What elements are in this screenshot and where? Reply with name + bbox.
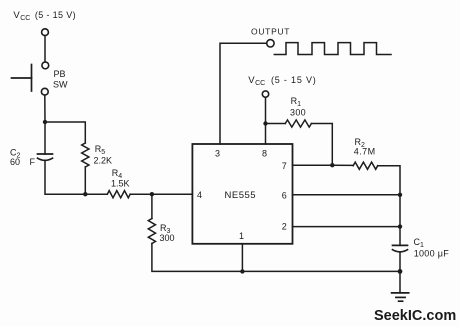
wire pin 7 of U1 to node E (293, 164, 333, 166)
svg-text:7: 7 (282, 161, 287, 171)
svg-text:1.5K: 1.5K (111, 178, 130, 188)
resistor R1 (285, 120, 311, 127)
svg-text:300: 300 (160, 233, 175, 243)
wire pin 2 of U1 to node G (293, 226, 401, 228)
wire node E to R2 (332, 164, 353, 166)
capacitor C1 (393, 244, 408, 246)
wire pin 1 of U1 down to ground rail (241, 244, 243, 272)
svg-text:3: 3 (215, 149, 220, 159)
node C junction dot (150, 192, 154, 196)
wire node G down to C1 (399, 227, 401, 246)
svg-text:8: 8 (262, 149, 267, 159)
wire R2 right end down to node F (378, 166, 400, 195)
wire node F down to node G (399, 195, 401, 227)
svg-text:1: 1 (239, 231, 244, 241)
svg-text:6: 6 (282, 190, 287, 200)
power terminal VCC1 (top left) (42, 29, 49, 36)
wire node C to pin 4 of U1 (152, 193, 193, 195)
svg-text:4: 4 (197, 190, 202, 200)
wire R1 right end down to node E (311, 124, 332, 166)
wire R5 bottom to node B (84, 167, 86, 194)
node G junction dot (398, 224, 402, 228)
wire node A to R5 top (45, 122, 85, 143)
resistor R4 (107, 191, 130, 198)
wire node C to R3 top (151, 194, 153, 218)
wire node D to pin 8 of U1 (265, 124, 267, 145)
svg-text:(5 - 15 V): (5 - 15 V) (35, 10, 76, 20)
wire node A to C2 top (44, 122, 46, 154)
svg-text:NE555: NE555 (225, 190, 257, 201)
wire node B to R4 (85, 193, 107, 195)
node E junction dot (330, 163, 334, 167)
svg-text:2.2K: 2.2K (94, 156, 113, 166)
svg-text:R1: R1 (291, 96, 302, 108)
svg-text:CC: CC (20, 15, 30, 22)
wire node D to R1 (266, 123, 286, 125)
power terminal VCC2 (262, 91, 268, 97)
svg-text:2: 2 (282, 222, 287, 232)
output terminal circle (267, 40, 274, 47)
svg-text:300: 300 (290, 107, 306, 117)
wire pin 3 up to output (220, 43, 267, 144)
svg-text:(5 - 15 V): (5 - 15 V) (271, 75, 316, 85)
node pin1 junction dot (240, 269, 244, 273)
node F junction dot (398, 193, 402, 197)
svg-text:SeekIC.com: SeekIC.com (374, 308, 456, 324)
svg-text:CC: CC (255, 80, 265, 87)
wire pin 6 of U1 to node F (293, 194, 401, 196)
svg-text:R5: R5 (95, 144, 106, 156)
capacitor C2 (38, 153, 53, 155)
node B junction dot (83, 192, 87, 196)
svg-text:SW: SW (53, 80, 68, 90)
node D junction dot (263, 121, 267, 125)
svg-text:60: 60 (10, 157, 20, 167)
IC U1 NE555 body (192, 144, 292, 244)
wire VCC2 down to node D (265, 97, 267, 123)
resistor R2 (353, 162, 378, 169)
wire VCC1 to switch top contact (44, 36, 46, 62)
wire ground rail from pin1 branch to node H (242, 270, 400, 272)
ground symbol (392, 292, 409, 294)
waveform square wave (274, 43, 391, 55)
wire switch bottom contact to node A (44, 95, 46, 122)
node A junction dot (43, 120, 47, 124)
wire R4 to node C (130, 193, 152, 195)
pushbutton switch PB SW (42, 62, 49, 69)
wire C2 bottom to mid line (45, 161, 85, 194)
svg-text:1000 μF: 1000 μF (414, 248, 450, 258)
svg-text:F: F (30, 157, 36, 167)
svg-text:4.7M: 4.7M (354, 147, 375, 157)
resistor R5 (82, 143, 89, 167)
resistor R3 (148, 219, 155, 244)
wire C1 bottom to node H (399, 252, 401, 271)
wire node H down to ground (399, 271, 401, 293)
svg-text:PB: PB (54, 69, 66, 79)
svg-text:OUTPUT: OUTPUT (251, 26, 290, 36)
wire R3 bottom to ground rail (152, 244, 243, 272)
node H junction dot (398, 269, 403, 274)
svg-text:C1: C1 (414, 237, 425, 249)
